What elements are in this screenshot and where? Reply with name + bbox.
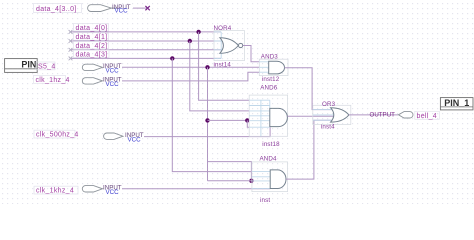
wire data_4[0]: [71, 31, 221, 33]
AND3 input stubs: [259, 62, 268, 72]
node clk_1hz_4 label: [34, 76, 70, 85]
wire bus data_4: [133, 7, 147, 9]
gate OR3: [331, 108, 349, 122]
wire AND6 out to OR3 in2: [287, 115, 333, 117]
svg-text:clk_1khz_4: clk_1khz_4: [36, 188, 74, 195]
AND4 symbol box: [252, 162, 288, 192]
svg-text:VCC: VCC: [106, 68, 120, 75]
svg-text:inst14: inst14: [214, 62, 232, 69]
svg-text:AND4: AND4: [260, 155, 278, 162]
wire S5 branch to AND6 in5: [208, 119, 250, 121]
gate AND6: [270, 108, 288, 126]
wire NOR4 out to AND3 in1: [243, 46, 259, 62]
wire data_4[0] to AND6 in1: [199, 32, 250, 100]
svg-text:data_4[3..0]: data_4[3..0]: [36, 6, 77, 13]
node data_4[0] label: [74, 24, 109, 32]
node clk_500hz_4 label: [34, 130, 79, 139]
wire S5_4: [122, 66, 259, 68]
AND3 symbol box: [259, 59, 288, 75]
svg-text:OUTPUT: OUTPUT: [370, 112, 396, 119]
gate AND4: [270, 170, 286, 189]
wire data_4[1]: [71, 40, 221, 42]
PIN_1 assignment box right: [440, 98, 473, 110]
INPUT/VCC text clk_1hz_4: [103, 77, 122, 88]
svg-text:AND6: AND6: [260, 84, 278, 91]
svg-text:OR3: OR3: [322, 101, 336, 108]
svg-text:S5_4: S5_4: [38, 64, 56, 71]
svg-text:VCC: VCC: [115, 7, 129, 14]
svg-text:inst: inst: [260, 197, 270, 204]
OR3 symbol box: [313, 105, 351, 124]
svg-text:clk_500hz_4: clk_500hz_4: [36, 132, 79, 139]
wire S5 into AND4 in3: [208, 180, 252, 182]
svg-text:VCC: VCC: [128, 136, 142, 143]
svg-text:PIN_1: PIN_1: [444, 98, 469, 108]
input pin symbol S5_4: [82, 64, 102, 70]
junction S5_4 tap: [205, 65, 209, 69]
wire AND4 out to OR3 in3: [286, 120, 332, 179]
input pin symbol data_4[3..0]: [88, 5, 117, 12]
node data_4[1] label: [74, 33, 109, 41]
wire clk_1khz_4: [122, 188, 270, 190]
svg-text:VCC: VCC: [106, 189, 120, 196]
node data_4[3..0] label: [34, 4, 82, 14]
wire data_4[3] to AND4 in1: [172, 58, 252, 171]
gate NOR4: [220, 38, 243, 54]
PIN assignment box left: [5, 59, 38, 73]
node clk_1khz_4 label: [34, 186, 78, 195]
AND6 symbol box: [249, 95, 287, 136]
node bell_4 label: [415, 111, 440, 120]
junction at AND6 in5: [245, 118, 249, 122]
svg-text:inst4: inst4: [321, 124, 335, 131]
svg-text:NOR4: NOR4: [214, 25, 232, 32]
wire branch down to AND6 in6: [247, 120, 249, 127]
svg-text:VCC: VCC: [106, 81, 120, 88]
svg-text:inst12: inst12: [262, 76, 280, 83]
node data_4[3] label: [74, 50, 110, 58]
svg-text:AND3: AND3: [261, 53, 279, 60]
INPUT/VCC text S5_4: [103, 63, 122, 74]
junction data_4[3] tap: [170, 56, 174, 60]
svg-text:PIN: PIN: [21, 59, 36, 69]
INPUT/VCC text data_4[3..0]: [112, 4, 131, 14]
output pin symbol bell_4: [398, 112, 413, 118]
node S5_4 label: [36, 62, 56, 71]
wire clk_500hz_4: [144, 127, 270, 136]
svg-text:data_4[0]: data_4[0]: [76, 25, 108, 32]
svg-text:data_4[1]: data_4[1]: [76, 34, 108, 41]
svg-text:clk_1hz_4: clk_1hz_4: [36, 77, 70, 84]
wire S5 branch upper loop to AND4: [208, 162, 252, 181]
wire AND3 out to OR3 in1: [285, 68, 332, 110]
wire data_4[3]: [71, 57, 221, 59]
svg-text:data_4[3]: data_4[3]: [76, 51, 108, 58]
INPUT/VCC text clk_500hz_4: [125, 132, 144, 143]
junction data_4[1] tap: [188, 39, 192, 43]
input pin symbol clk_1khz_4: [82, 186, 102, 192]
node data_4[2] label: [74, 42, 109, 50]
junction at AND4 in3: [249, 179, 253, 183]
NOR4 symbol box: [214, 31, 245, 61]
wire data_4[2]: [71, 49, 221, 51]
OR3 input stubs: [313, 110, 334, 121]
svg-text:data_4[2]: data_4[2]: [76, 43, 108, 50]
input pin symbol clk_1hz_4: [82, 78, 102, 84]
input pin symbol clk_500hz_4: [104, 133, 123, 139]
junction data_4[0] tap: [196, 30, 200, 34]
svg-text:bell_4: bell_4: [417, 113, 437, 120]
INPUT/VCC text clk_1khz_4: [103, 185, 122, 196]
NOR4 input stubs: [214, 32, 223, 59]
wire S5_4 drop: [207, 67, 209, 180]
wire OR3 out to output pin: [349, 114, 398, 116]
wire data_4[1] to AND6 in3: [190, 41, 249, 111]
wire clk_1hz_4: [122, 72, 259, 81]
junction S5 branch to AND6: [205, 118, 209, 122]
unconnected X marker: [145, 6, 149, 10]
AND4 input stubs: [252, 172, 270, 189]
gate AND3: [269, 61, 285, 74]
AND6 input stubs: [249, 100, 270, 136]
svg-text:inst18: inst18: [262, 141, 280, 148]
